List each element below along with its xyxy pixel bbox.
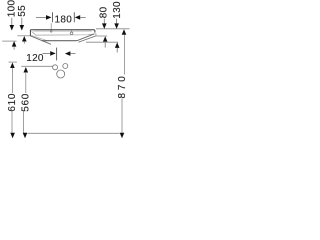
waste circle large [57,70,65,78]
reference line for 560 dim (supply connection height) [21,65,53,67]
svg-text:100: 100 [6,0,17,17]
870 dim line upper segment [124,35,126,75]
up arrow of 870 dim (top) [122,29,127,35]
stem below 55 up arrow [23,41,25,43]
560 dim line upper segment [25,72,27,93]
down arrow of 100 dim [10,25,15,31]
svg-text:80: 80 [98,6,109,18]
120 right-pointing arrow [50,51,56,56]
180 left extension bar [52,12,54,22]
svg-text:120: 120 [26,53,44,64]
up arrow of 560 dim [24,67,29,73]
basin left edge [29,30,31,36]
reference line for 100 dim (basin bottom level) [2,40,16,42]
180 dim leader line left [36,16,46,18]
supply circle right [63,64,68,69]
stem below 80 up arrow [104,42,106,48]
up arrow of 100 dim [12,41,17,47]
reference line for 130 dim [86,41,118,43]
supply circle left [53,65,58,70]
rim-top extension line to the right [96,28,130,30]
down arrow of 130 dim [114,23,119,29]
basin wedge bottom line [78,36,96,42]
down arrow of 560 dim [23,133,28,139]
180 dim leader line right [80,16,86,18]
reference line for 55 dim (basin lower-left corner level) [18,35,31,37]
extension line from faucet hole up to 180 bar [50,23,52,29]
120 dim leader line right [70,53,75,55]
down arrow of 55 dim [20,25,25,31]
610 dim line upper segment [11,68,13,93]
faucet hole circle on rim [50,30,52,32]
up arrow of 80 dim [103,36,108,42]
down arrow of 610 dim [10,133,15,139]
drain stopper circle [70,32,73,35]
870 dim line lower segment [121,99,123,134]
120 left-pointing arrow [65,51,71,56]
120 extension bar [56,48,58,61]
svg-text:560: 560 [21,93,32,112]
stem from 100 text to its down arrow [11,18,13,26]
bowl inner bottom line to front tip [32,31,96,36]
reference line for 80 dim (basin front tip level) [96,35,107,37]
drain stopper stem [71,30,73,32]
svg-text:870: 870 [117,73,128,98]
svg-text:180: 180 [55,15,73,26]
180 left-pointing arrow [75,15,81,20]
floor line [28,132,120,134]
120 dim leader line left [43,52,51,54]
180 right extension bar [73,12,75,22]
up arrow of 610 dim [10,63,15,69]
basin underside bottom line [42,40,77,42]
down arrow of 870 dim (bottom) [120,133,125,139]
svg-text:55: 55 [17,5,28,17]
up arrow of 55 dim [22,36,27,42]
svg-text:610: 610 [7,93,18,112]
down arrow of 80 dim [102,23,107,29]
reference line for 610 dim [9,61,17,63]
basin left underside slope [30,36,51,45]
180 right-pointing arrow [46,15,52,20]
basin inner rim line [34,30,92,32]
stem from 130 text to its down arrow [116,19,118,24]
stem below 100 up arrow [13,46,15,49]
560 dim line lower segment [22,111,24,134]
svg-text:130: 130 [112,1,123,19]
610 dim line lower segment [11,110,13,133]
basin left underside inner slope line [31,35,47,40]
basin rim top line with right corner [30,30,95,33]
stem below 130 up arrow [116,48,118,53]
stem from 80 text to its down arrow [103,19,105,24]
basin wedge top line [77,34,94,41]
stem from 55 text to its down arrow [21,18,23,26]
up arrow of 130 dim [115,42,120,48]
